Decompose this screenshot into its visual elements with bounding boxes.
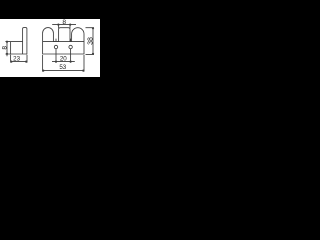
dim 38 dimension line bbox=[92, 28, 94, 55]
hole centreline tick right bbox=[70, 39, 72, 42]
arrowheads dim 8 side view bbox=[6, 41, 8, 43]
dim 53 extension lines bbox=[43, 55, 84, 72]
svg-text:53: 53 bbox=[59, 64, 66, 71]
front view: body top line between arches bbox=[43, 41, 84, 43]
svg-text:20: 20 bbox=[60, 55, 67, 62]
screw hole left bbox=[54, 45, 57, 48]
arrowheads dim 20 bbox=[55, 61, 57, 63]
dim 23 dimension line bbox=[11, 61, 27, 63]
arrowheads dim 53 bbox=[42, 70, 44, 72]
svg-text:8: 8 bbox=[1, 46, 8, 50]
side view: foot front edge bbox=[10, 42, 12, 54]
dim 8 (top) extension ticks bbox=[59, 25, 70, 28]
svg-text:38: 38 bbox=[88, 37, 95, 45]
dim 8 (side view) dimension line bbox=[6, 42, 8, 57]
arrowheads dim 23 bbox=[10, 61, 12, 63]
dim 38 extension lines bbox=[86, 28, 95, 55]
dim 20 dimension line bbox=[52, 61, 75, 63]
side view: foot top edge + left extension line for dim 8 bbox=[5, 41, 22, 43]
side view: vertical bar of L-profile bbox=[23, 28, 27, 54]
white drawing band bbox=[0, 19, 100, 76]
side view: foot bottom edge + left extension line for dim 8 bbox=[5, 53, 27, 55]
arrowheads dim 8 top bbox=[57, 24, 59, 26]
dim 23 extension lines bbox=[11, 55, 27, 63]
svg-text:8: 8 bbox=[62, 19, 66, 26]
dim 8 (top) dimension line bbox=[52, 24, 76, 26]
svg-text:23: 23 bbox=[13, 55, 20, 62]
hole centreline tick left bbox=[55, 39, 57, 42]
dim 20 extension lines bbox=[56, 49, 71, 63]
screw hole right bbox=[69, 45, 72, 48]
arrowheads dim 38 bbox=[92, 27, 94, 29]
side view: bar right edge bbox=[26, 42, 28, 54]
front view: outline with left arch, centre post, right arch bbox=[43, 28, 84, 54]
dim 53 dimension line bbox=[43, 70, 84, 72]
